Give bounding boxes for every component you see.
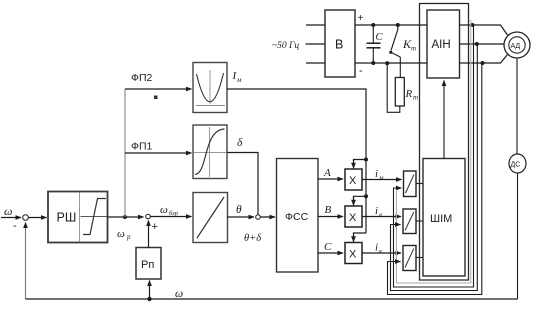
svg-text:Рп: Рп — [141, 259, 154, 271]
svg-text:ШІМ: ШІМ — [430, 213, 452, 225]
svg-text:δ: δ — [237, 137, 243, 149]
svg-text:ФП2: ФП2 — [131, 72, 153, 84]
svg-text:C: C — [376, 32, 384, 43]
svg-text:т: т — [411, 45, 416, 53]
svg-text:R: R — [405, 88, 413, 100]
svg-text:ω: ω — [4, 204, 12, 218]
svg-text:ФСС: ФСС — [285, 211, 309, 223]
svg-text:+: + — [358, 13, 364, 24]
svg-text:м: м — [236, 76, 242, 84]
svg-text:Х: Х — [349, 175, 357, 187]
svg-text:C: C — [324, 241, 332, 253]
svg-text:-: - — [13, 220, 17, 232]
svg-text:АІН: АІН — [432, 39, 451, 51]
svg-text:B: B — [325, 204, 332, 216]
svg-text:ω: ω — [160, 204, 168, 216]
svg-text:i: i — [375, 205, 378, 217]
svg-text:Х: Х — [349, 249, 357, 261]
svg-text:В: В — [335, 38, 343, 52]
svg-text:ω: ω — [175, 288, 183, 300]
svg-text:ФП1: ФП1 — [131, 141, 153, 153]
svg-text:р: р — [126, 233, 131, 241]
svg-text:РШ: РШ — [57, 211, 77, 225]
svg-text:i: i — [375, 168, 378, 180]
svg-text:м: м — [378, 174, 384, 182]
svg-text:Х: Х — [349, 212, 357, 224]
svg-text:в: в — [379, 211, 382, 219]
svg-text:i: i — [375, 242, 378, 254]
svg-text:-: - — [359, 65, 363, 77]
svg-text:~50 Гц: ~50 Гц — [272, 41, 299, 51]
svg-text:ω: ω — [117, 228, 125, 240]
svg-text:θ: θ — [236, 204, 242, 216]
svg-text:ДС: ДС — [511, 162, 521, 169]
svg-text:+: + — [152, 221, 158, 233]
svg-text:θ+δ: θ+δ — [244, 233, 262, 244]
svg-text:т: т — [413, 94, 418, 102]
svg-text:АД: АД — [511, 43, 521, 50]
svg-text:A: A — [323, 167, 331, 179]
